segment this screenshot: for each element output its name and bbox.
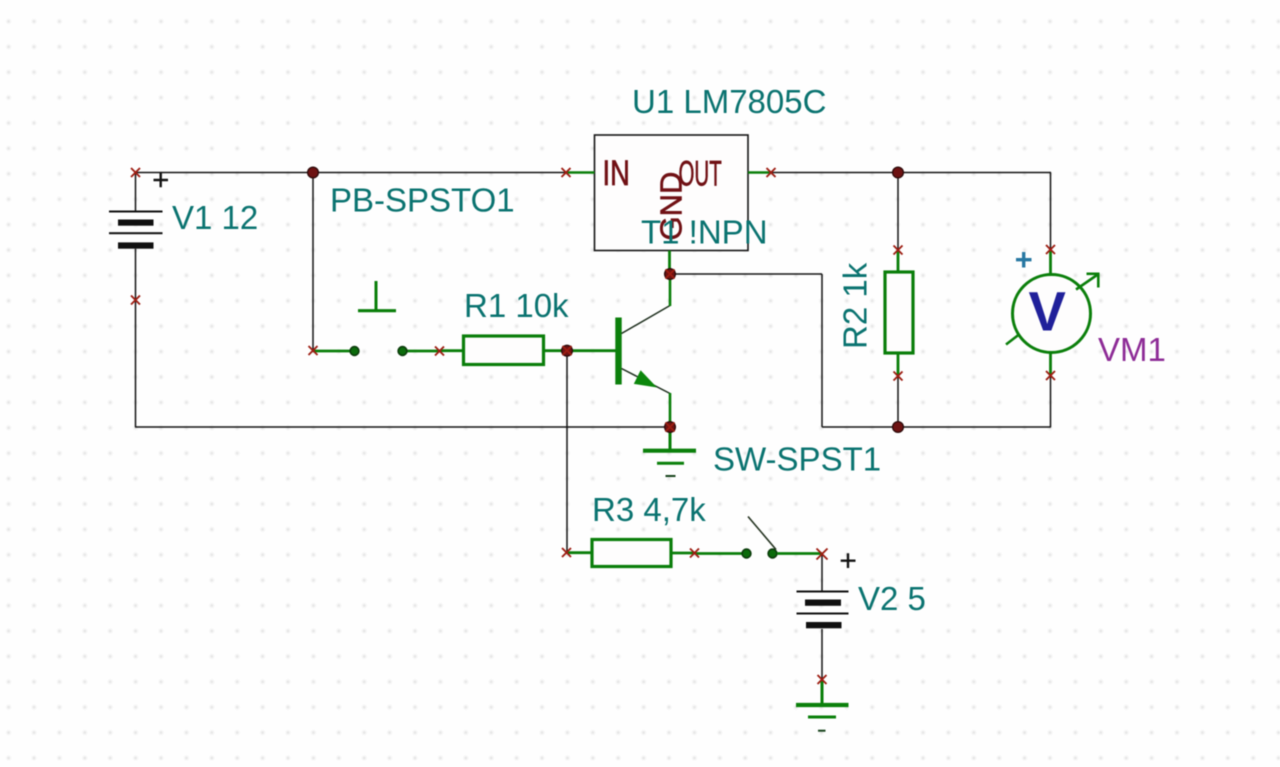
transistor T1 xyxy=(567,274,670,427)
svg-text:SW-SPST1: SW-SPST1 xyxy=(713,441,881,478)
wire battery V1 bottom down to bottom-left rail xyxy=(135,300,137,427)
wire V2 top xyxy=(821,554,823,591)
junction node base xyxy=(562,345,573,356)
svg-text:V1 12: V1 12 xyxy=(172,199,258,236)
junction node GND/collector xyxy=(665,269,676,280)
wire R2 top xyxy=(897,173,899,250)
terminal x marks xyxy=(131,168,1055,684)
svg-text:R1 10k: R1 10k xyxy=(464,287,569,324)
wire V2 bottom xyxy=(821,629,823,680)
svg-text:R3 4,7k: R3 4,7k xyxy=(592,491,706,528)
U1 LM7805C regulator box xyxy=(595,135,749,251)
wire R2 bottom xyxy=(897,376,899,427)
ground (emitter) xyxy=(643,427,696,476)
resistor R3 xyxy=(567,540,695,567)
svg-text:V2 5: V2 5 xyxy=(858,580,926,617)
svg-text:R2 1k: R2 1k xyxy=(837,262,874,349)
ground (V2) xyxy=(796,681,849,731)
svg-text:IN: IN xyxy=(603,154,630,193)
wire VM1 bottom to bottom-right rail xyxy=(1050,376,1052,427)
wire R1 junction down to R3 xyxy=(566,351,568,553)
wire junction A down to push button xyxy=(312,173,314,351)
svg-text:T1 !NPN: T1 !NPN xyxy=(641,214,768,251)
junction node R2 bottom xyxy=(893,422,904,433)
wire top rail battery to IN pin xyxy=(136,172,567,174)
resistor R2 xyxy=(885,251,913,375)
pin GND stub xyxy=(668,251,671,275)
pin IN stub xyxy=(566,171,595,174)
pin OUT stub xyxy=(748,171,771,174)
push button PB-SPSTO1 xyxy=(313,281,440,355)
voltmeter VM1 xyxy=(1006,251,1100,376)
battery V1 xyxy=(109,173,168,300)
svg-text:V: V xyxy=(1029,280,1066,343)
resistor R1 xyxy=(440,336,567,365)
wire right corner down xyxy=(821,274,823,427)
junction node emitter xyxy=(665,422,676,433)
svg-text:U1 LM7805C: U1 LM7805C xyxy=(632,83,826,120)
svg-text:PB-SPSTO1: PB-SPSTO1 xyxy=(330,182,515,219)
switch SW-SPST1 xyxy=(695,517,822,558)
junction node R2 top xyxy=(893,167,904,178)
junction node A (top of PB) xyxy=(308,167,319,178)
wire bottom-right rail xyxy=(822,426,1051,428)
wire OUT pin to top-right corner xyxy=(771,172,1051,174)
svg-text:VM1: VM1 xyxy=(1098,331,1166,368)
wire GND junction to right corner xyxy=(670,273,822,275)
wire top-right corner down to VM1 xyxy=(1050,173,1052,251)
junction x spikes xyxy=(563,270,675,432)
battery V2 xyxy=(797,553,856,628)
wire bottom-left rail xyxy=(135,426,670,428)
